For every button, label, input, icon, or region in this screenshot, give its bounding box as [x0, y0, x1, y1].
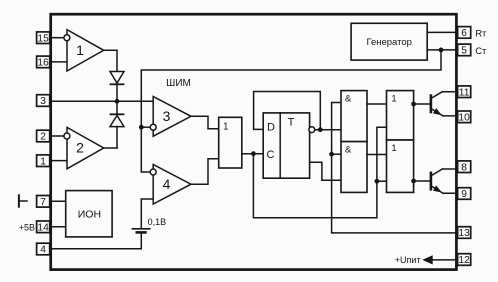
wire pin2 to comparator 2 inverting input: [50, 135, 64, 137]
generator box: [351, 23, 427, 60]
svg-text:+Uпит: +Uпит: [395, 255, 421, 265]
wire comparator 1 output to diode D1: [104, 50, 117, 71]
svg-text:0,1В: 0,1В: [148, 217, 167, 227]
OR gate bottom: [387, 140, 414, 192]
wire pin1 to comparator 2: [50, 160, 67, 162]
wire pin16 to comparator 1: [50, 61, 67, 63]
comparator U3 inverting-input circle: [150, 124, 156, 130]
svg-text:T: T: [288, 117, 295, 129]
wire feedback Q-bar to D input: [315, 129, 341, 131]
pin 14: [37, 221, 50, 233]
node dot before C input: [251, 151, 256, 156]
wire Q output to lower AND gate: [310, 162, 341, 180]
node dot on Q-bar output: [318, 127, 323, 132]
svg-text:8: 8: [461, 162, 467, 173]
node dot PWM net at lower OR gate: [375, 179, 380, 184]
voltage reference ION box: [66, 191, 112, 237]
svg-text:14: 14: [37, 222, 49, 233]
comparator 4 (dead-time): [153, 165, 191, 205]
AND gate top: [341, 91, 367, 142]
comparator U4 inverting-input circle: [150, 169, 156, 175]
svg-text:ИОН: ИОН: [78, 209, 101, 221]
wire bottom AND to bottom OR: [367, 154, 387, 156]
wire pin14 to ION: [50, 226, 66, 228]
svg-text:D: D: [267, 122, 275, 134]
wire battery to pin 4 line: [50, 232, 142, 248]
pin 6: [458, 27, 471, 39]
diode D2: [110, 102, 124, 148]
wire OR buffer output to flip-flop C: [242, 153, 263, 155]
pin 4: [37, 243, 50, 255]
pin 10: [458, 111, 471, 123]
wire pin 3 feedback line to comparator 3: [50, 100, 153, 102]
pin 13: [458, 227, 471, 239]
pin 11: [458, 86, 471, 98]
transistor VT1: [431, 92, 458, 118]
OR gate top: [387, 91, 414, 140]
svg-text:9: 9: [461, 189, 467, 200]
pin 15: [37, 32, 50, 44]
pin 7: [37, 196, 50, 208]
wire top AND to top OR: [367, 103, 387, 105]
flip-flop inverted output circle: [309, 127, 315, 133]
node: feedback node dot: [115, 99, 120, 104]
svg-text:+5В: +5В: [19, 222, 35, 232]
ground symbol: [19, 195, 27, 206]
svg-text:1: 1: [76, 42, 84, 58]
wire dot to comparator 3 inverting input: [141, 126, 150, 128]
svg-text:3: 3: [163, 108, 171, 124]
wire pin15 to comparator 1 inverting input: [50, 37, 64, 39]
svg-text:1: 1: [40, 156, 46, 167]
wire comparator 3 output to OR buffer: [191, 116, 219, 129]
pin 2: [37, 130, 50, 142]
diode D1: [110, 72, 124, 101]
comparator 1 (error amp): [67, 30, 104, 71]
svg-text:Cт: Cт: [475, 46, 487, 57]
svg-text:13: 13: [458, 228, 470, 239]
comparator U1 inverting-input circle: [64, 35, 70, 41]
wire generator to pin 5: [427, 49, 457, 51]
wire comparator 4 offset input: [141, 199, 153, 229]
svg-text:5: 5: [461, 46, 467, 57]
svg-text:Генератор: Генератор: [366, 37, 412, 48]
comparator 2 (error amp): [67, 127, 104, 168]
svg-text:1: 1: [391, 94, 396, 105]
svg-text:7: 7: [40, 197, 46, 208]
svg-text:1: 1: [223, 122, 229, 133]
wire top OR output to transistor VT1 base: [414, 103, 431, 105]
svg-text:3: 3: [40, 96, 46, 107]
pin 3: [37, 95, 50, 107]
svg-text:6: 6: [461, 28, 467, 39]
battery 0.1V positive plate: [132, 228, 149, 230]
wire pin 12 supply: [432, 259, 458, 261]
node dot bottom OR output: [411, 179, 416, 184]
svg-text:Rт: Rт: [475, 28, 487, 39]
svg-text:16: 16: [37, 58, 49, 69]
node dot output-control at lower AND gate: [329, 152, 334, 157]
wire generator to pin 6: [427, 31, 457, 33]
svg-text:&: &: [345, 145, 352, 156]
comparator 3 (PWM): [153, 97, 191, 137]
transistor VT2: [431, 169, 458, 195]
svg-text:4: 4: [163, 176, 171, 192]
svg-text:ШИМ: ШИМ: [166, 78, 191, 89]
pin 5: [458, 44, 471, 56]
wire generator rail to comparators: [141, 50, 441, 172]
node dot top OR output: [411, 102, 416, 107]
wire Q-bar loop to D: [254, 92, 321, 130]
svg-text:C: C: [267, 149, 275, 161]
svg-text:4: 4: [40, 245, 46, 256]
node dot on sawtooth rail to comparator 3: [139, 125, 144, 130]
pin 16: [37, 56, 50, 68]
flip-flop T: [263, 113, 309, 178]
pin 12: [458, 254, 471, 266]
svg-text:11: 11: [459, 87, 470, 98]
comparator U2 inverting-input circle: [64, 133, 70, 139]
wire PWM net into lower OR gate: [377, 180, 387, 182]
OR buffer 1: [219, 117, 242, 168]
battery 0.1V negative plate: [137, 231, 146, 234]
wire pin 13 output control to AND gates: [332, 103, 458, 233]
arrow +Upit: [422, 255, 432, 264]
wire bottom OR output to transistor VT2 base: [414, 180, 431, 182]
svg-text:15: 15: [37, 33, 49, 44]
svg-text:10: 10: [458, 112, 470, 123]
AND gate bottom: [341, 142, 367, 193]
pin 1: [37, 155, 50, 167]
svg-text:2: 2: [76, 140, 84, 156]
wire pin7 to ION: [50, 200, 66, 202]
IC body: [51, 14, 457, 269]
node dot on pin 5 wire: [439, 48, 444, 53]
wire comparator 4 output to OR buffer: [191, 159, 219, 184]
svg-text:1: 1: [391, 143, 396, 154]
wire output-control into lower AND gate: [332, 153, 341, 155]
wire PWM net to output OR gates: [253, 127, 386, 218]
svg-text:&: &: [345, 94, 352, 105]
wire comparator 2 output to diode D2: [104, 147, 117, 149]
svg-text:12: 12: [458, 255, 470, 266]
pin 8: [458, 161, 471, 173]
pin 9: [458, 188, 471, 200]
svg-text:2: 2: [40, 132, 46, 143]
